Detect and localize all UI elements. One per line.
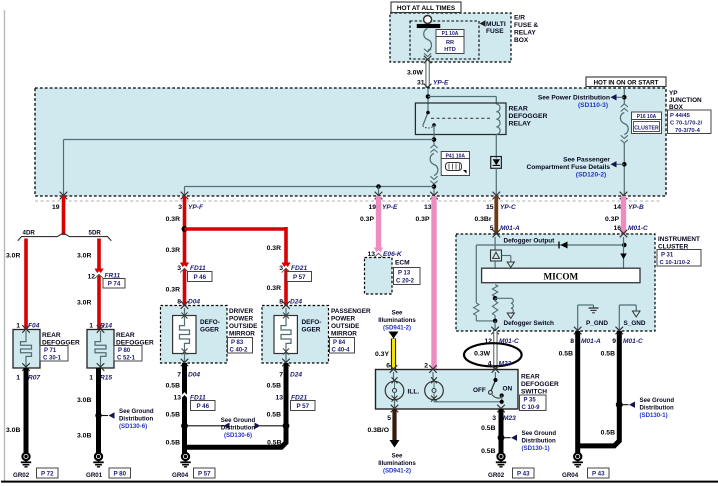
pin 13 FD21 [275,395,307,402]
svg-text:13: 13 [173,395,181,402]
svg-text:GR04: GR04 [172,472,189,479]
svg-text:3.0B: 3.0B [6,427,20,434]
svg-text:0.3Y: 0.3Y [375,351,389,358]
svg-text:0.3Br: 0.3Br [474,216,491,223]
svg-text:P1 10A: P1 10A [442,31,459,37]
svg-text:POWER: POWER [331,316,356,323]
switch common link [434,401,502,403]
svg-text:3.0R: 3.0R [77,300,91,307]
svg-text:2: 2 [424,363,428,370]
svg-text:0.3R: 0.3R [267,245,281,252]
svg-text:0.3P: 0.3P [360,216,374,223]
internal wire 2 to YP-F [185,187,435,197]
svg-text:C 52-1: C 52-1 [117,356,136,362]
label S_GND [624,320,646,327]
pin 2 [424,363,428,370]
svg-text:DEFO-: DEFO- [302,319,322,326]
illumination feed arrow [389,332,399,339]
wire 0.3P YP-B [621,196,626,234]
crossing arrow cluster in 16 [620,230,628,238]
defogger1 ref box [40,346,68,362]
connector FD21 top [281,263,290,273]
E/R multi-fuse inner box [410,21,479,59]
svg-text:0.5B: 0.5B [166,440,180,447]
svg-text:0.3P: 0.3P [416,216,430,223]
junction dot relay output [432,137,437,142]
label see passenger compartment [526,157,610,179]
svg-text:3.0B: 3.0B [77,433,91,440]
crossing arrow cluster out 8 [574,327,582,335]
passenger mirror box [262,301,329,363]
svg-text:SWITCH: SWITCH [521,389,547,396]
label 0.5B cl8 [559,351,573,358]
M23 ellipse [464,343,522,366]
svg-text:M01-A: M01-A [581,338,601,345]
svg-text:Illuminations: Illuminations [378,460,416,467]
wire 0.3R cross [185,227,287,231]
crossing arrow at E/R box exit [424,56,432,64]
svg-text:6: 6 [386,363,390,370]
FD11 ref box bottom [191,401,216,411]
internal wire 1 to pin 19 [64,140,435,197]
wire 0.5B driver [182,363,187,453]
net YP-E top [433,80,449,87]
gauge 0.3P YP-E [360,216,374,223]
label 0.3W [474,351,490,358]
pin 3 + net YP-F [178,204,204,211]
svg-text:FUSE: FUSE [486,28,504,35]
svg-text:See Ground: See Ground [640,397,675,404]
wire relay feed [427,88,429,113]
driver mirror ref box [228,338,253,354]
svg-text:(SD130-1): (SD130-1) [522,445,550,452]
svg-text:0.3R: 0.3R [166,216,180,223]
svg-text:P 74: P 74 [108,281,121,288]
svg-text:Compartment Fuse Details: Compartment Fuse Details [526,164,610,171]
internal wire to YP-E pin [378,187,380,197]
ILL lamp [385,372,404,409]
svg-text:M01-C: M01-C [623,338,643,345]
svg-text:HTD: HTD [444,47,456,53]
wire 0.3R passenger [284,227,288,306]
pin 13 FD11 [173,395,206,402]
diode defogger output [559,242,568,249]
junction dot cluster gnd ref [616,401,629,408]
svg-text:REAR: REAR [116,332,135,339]
svg-text:3.0R: 3.0R [77,253,91,260]
svg-text:YP-E: YP-E [433,80,449,87]
svg-text:YP-F: YP-F [188,204,204,211]
label see ground dist switch [522,430,557,452]
bus bar [417,24,440,28]
label 5DR [89,230,102,237]
svg-text:ILL.: ILL. [408,389,420,396]
ref arrow passenger fuse [611,161,617,167]
pin 8 D04 [177,299,200,306]
pin 13 mid [424,204,432,211]
svg-text:(SD130-6): (SD130-6) [119,423,147,430]
label 3.0R mid [77,253,91,260]
svg-text:1: 1 [16,323,20,330]
rear defogger switch box [376,370,519,410]
svg-text:RELAY: RELAY [509,121,532,128]
label 0.5B p3 [267,383,281,390]
svg-text:P 57: P 57 [293,274,306,281]
svg-text:M01-A: M01-A [500,225,520,232]
svg-text:3: 3 [492,415,496,422]
svg-text:12: 12 [87,274,95,281]
svg-text:DEFOGGER: DEFOGGER [509,113,548,120]
svg-text:DEFO-: DEFO- [200,319,220,326]
label REAR DEFOGGER 1 [42,332,80,347]
svg-text:D24: D24 [290,372,302,379]
label Defogger Switch [504,320,555,327]
svg-text:19: 19 [52,204,60,211]
svg-text:DRIVER: DRIVER [229,308,254,315]
svg-text:GR02: GR02 [13,472,30,479]
wire 0.3R from pin19 [62,196,66,235]
page left border [4,10,6,481]
crossing arrow switch in 6 [390,365,398,373]
E/R fuse & relay box [390,13,511,62]
svg-text:3: 3 [178,204,182,211]
ref arrow gnd mirror left [224,423,230,429]
svg-text:GR04: GR04 [562,472,579,479]
fuse P1 label box [436,30,464,54]
svg-text:R07: R07 [28,375,40,382]
label PASSENGER POWER OUTSIDE MIRROR [331,308,371,338]
label 3.0W [407,70,423,77]
label ECM [395,260,410,267]
svg-text:OUTSIDE: OUTSIDE [229,323,258,330]
svg-text:5: 5 [387,415,391,422]
svg-text:INSTRUMENT: INSTRUMENT [658,236,700,243]
label 0.5B p4 [267,412,281,419]
svg-text:See: See [392,453,403,460]
ground GR01 [93,453,103,467]
wire 3.0R right upper [97,239,101,331]
svg-text:(SD110-3): (SD110-3) [578,102,608,109]
pin 5 out [387,415,391,422]
crossing arrow switch out 3 [497,405,505,413]
svg-text:0.3B/O: 0.3B/O [367,427,389,434]
switch net coil branch [495,298,514,318]
svg-text:HOT AT ALL TIMES: HOT AT ALL TIMES [397,5,456,12]
fuse P41 label box [441,152,469,176]
svg-text:(SD120-2): (SD120-2) [576,172,606,179]
relay coil [496,104,500,134]
junction dot switch gnd ref [498,434,511,441]
defogger2 ref box [114,346,142,362]
pin 7 D24 [279,372,302,379]
rear defogger grid right [87,325,114,371]
relay coil to diode [495,135,497,159]
svg-text:P 80: P 80 [113,470,126,477]
label GR04 cluster [562,472,579,479]
label REAR DEFOGGER 2 [116,332,154,347]
svg-text:(SD941-2): (SD941-2) [383,468,411,475]
svg-text:(SD130-1): (SD130-1) [640,412,668,419]
label 3.0B right up [77,397,91,404]
svg-text:MICOM: MICOM [543,271,578,281]
svg-text:C 10-9: C 10-9 [522,405,541,411]
svg-text:JUNCTION: JUNCTION [669,97,702,104]
svg-text:D04: D04 [188,299,200,306]
junction dot defogger output [622,243,627,248]
illumination out arrow [390,440,400,448]
svg-text:P 80: P 80 [118,348,131,354]
pin 15 + net YP-C [486,204,516,211]
hot in on-or-start box [586,77,666,87]
svg-text:R15: R15 [100,375,112,382]
wire 0.5B pin8 [575,331,580,453]
crossing arrow exit pin14 YP-B [620,192,628,200]
svg-text:0.3P: 0.3P [605,216,619,223]
crossing arrow exit pin13 [430,192,438,200]
pin 14 + net YP-B [613,204,644,211]
S_GND bracket [619,305,640,331]
pin 13 E06-K [367,251,402,258]
label 0.5B d3 [166,383,180,390]
FR11 ref box [103,279,125,289]
svg-text:YP-E: YP-E [382,204,398,211]
rear defogger relay box [415,103,506,135]
diode D1 in junction box [491,157,502,169]
pin 8 M01-A [570,338,601,345]
svg-text:YP: YP [669,90,678,97]
crossing arrow switch in 4 [492,365,500,373]
label DEFOGGER passenger [302,319,322,334]
label 0.3Y [375,351,389,358]
crossing arrow into junction box [424,84,432,92]
svg-text:4: 4 [488,361,492,368]
sensor triangle box [491,250,502,261]
label 0.5B sw1 [481,425,495,432]
svg-text:P 46: P 46 [193,274,206,281]
label 4DR [23,230,36,237]
gauge 0.3R YP-F [166,216,180,223]
svg-text:3.0W: 3.0W [407,70,423,77]
svg-text:Distribution: Distribution [119,416,153,423]
svg-text:CLUSTER: CLUSTER [634,125,659,131]
svg-text:POWER: POWER [229,316,254,323]
wire 0.3W cluster to switch [493,331,497,370]
ground GR02 left [21,453,31,467]
label see ground dist mirrors [221,417,256,439]
label 0.5B cl10 [601,430,615,437]
label 0.3R d2 [166,287,180,294]
svg-text:E/R: E/R [514,15,525,22]
pin 1 R07 [16,375,40,382]
label see illuminations bottom [378,453,416,475]
fuse P16 label box [632,112,662,134]
svg-text:P 71: P 71 [44,348,57,354]
svg-text:P 72: P 72 [41,470,54,477]
label 0.3R p1 [267,245,281,252]
label YP JUNCTION BOX [669,90,702,111]
svg-text:M01-C: M01-C [628,225,648,232]
svg-text:D04: D04 [188,372,200,379]
crossing arrow cluster out 12 [491,327,499,335]
crossing arrow exit pin19 left [60,192,68,200]
label see power distribution [538,95,610,110]
gray dashed pin strip line [35,200,660,202]
P_GND bracket [578,305,599,331]
svg-text:BOX: BOX [514,37,529,44]
ground GR04 mirrors [180,453,190,467]
passenger mirror element [274,308,297,363]
wire 0.3Y [391,339,396,371]
FD21 ref box bottom [291,401,316,411]
wire P41 output [433,184,435,196]
ref arrow power distribution [611,94,617,100]
label REAR DEFOGGER RELAY [509,106,548,128]
micom pull resistor [492,285,497,297]
svg-text:P_GND: P_GND [586,320,608,327]
svg-text:FD11: FD11 [190,265,206,272]
svg-text:Distribution: Distribution [640,405,674,412]
label Defogger Output [504,238,556,245]
connector E06-K [374,248,383,258]
svg-text:See Power Distribution: See Power Distribution [538,95,610,102]
svg-text:P 43: P 43 [592,470,605,477]
ref arrow switch gnd [511,435,517,441]
pin 6 [386,363,390,370]
crossing arrow switch in 2 [429,365,437,373]
wire 3.0W fuse to junction box [425,59,429,88]
wire relay output [433,125,435,145]
ECM ref box [394,268,421,285]
gauge 0.3P YP-B [605,216,619,223]
wire 0.5B switch ground [499,409,504,453]
svg-text:P41 10A: P41 10A [446,153,466,159]
pin 1 R15 [89,375,112,382]
label 0.5B cl9 [601,351,615,358]
defogger output line [476,245,624,301]
svg-text:MULTI: MULTI [486,21,506,28]
pin 8 D24 [279,299,302,306]
wire 0.3Br YP-C [494,196,498,234]
pin 5 + M01-A [490,225,520,232]
pin 31 [417,80,425,87]
svg-text:See Ground: See Ground [221,417,256,424]
svg-text:0.5B: 0.5B [267,383,281,390]
label see ground dist cluster [640,397,675,419]
wire to relay coil [428,97,496,105]
battery feed terminal [424,16,432,24]
svg-text:E06-K: E06-K [383,251,403,258]
svg-text:0.3R: 0.3R [166,287,180,294]
IND lamp [425,372,444,402]
junction dot gnd ref p [260,422,289,429]
svg-text:3: 3 [177,265,181,272]
svg-text:P 35: P 35 [524,398,537,404]
svg-text:0.3W: 0.3W [474,351,490,358]
crossing arrow cluster out 9 [616,327,624,335]
label see ground dist R15 [119,408,154,430]
label 3.0B left [6,427,20,434]
svg-text:Defogger Switch: Defogger Switch [504,320,555,327]
svg-text:P 57: P 57 [296,403,309,410]
svg-text:See Ground: See Ground [522,430,557,437]
rear defogger grid left [13,325,40,371]
svg-text:DEFOGGER: DEFOGGER [521,381,559,388]
hot at all times box [391,2,461,13]
GR02 switch ref box [513,468,535,478]
switch ref box [520,395,547,411]
svg-text:31: 31 [417,80,425,87]
label DEFOGGER driver [200,319,220,334]
svg-text:Distribution: Distribution [522,438,556,445]
wire 0.5B passenger elbow [184,363,286,447]
tie line see passenger fuse [612,163,624,165]
svg-text:0.3R: 0.3R [166,247,180,254]
svg-text:GR02: GR02 [488,472,505,479]
svg-text:Illuminations: Illuminations [378,317,416,324]
svg-text:P 46: P 46 [196,403,209,410]
svg-text:7: 7 [279,372,283,379]
svg-text:P 43: P 43 [517,470,530,477]
svg-text:Distribution: Distribution [221,425,255,432]
junction dot power dist [622,95,627,100]
ECM box [365,258,393,295]
junction dot YP-F split [182,226,188,232]
svg-text:See Ground: See Ground [119,408,154,415]
svg-text:M23: M23 [503,415,516,422]
crossing arrow exit pin15 YP-C [493,192,501,200]
svg-text:7: 7 [177,372,181,379]
YP junction box [35,88,666,196]
pin 7 D04 [177,372,200,379]
svg-text:P 83: P 83 [231,340,244,346]
ground GR04 cluster [573,453,583,467]
svg-text:P 44/45: P 44/45 [670,113,691,119]
wire hot-in-on to fuse P16 [623,87,625,104]
svg-text:13: 13 [275,395,283,402]
label OFF [473,387,486,394]
svg-text:MIRROR: MIRROR [331,331,357,338]
svg-text:C 30-1: C 30-1 [43,356,62,362]
GR01 ref box [109,468,131,478]
pin 12 + FR11 [87,273,120,281]
fuse P41 10A [430,145,438,184]
junction dot ground ref R15 [95,412,108,418]
defogger switch contact [489,372,504,404]
svg-text:4DR: 4DR [23,230,36,237]
ref arrow cluster gnd [629,402,635,408]
svg-text:14: 14 [613,204,621,211]
page bottom border [1,481,718,483]
driver mirror box [161,301,228,363]
cluster wire to pin12 [494,321,496,331]
svg-text:GR01: GR01 [86,472,103,479]
pin 1 R14 [89,323,112,330]
label 0.3R d1 [166,247,180,254]
GR04 cluster ref box [588,468,610,478]
wire 3.0R left [24,239,28,331]
svg-text:See: See [392,310,403,317]
svg-text:ON: ON [503,386,513,393]
svg-text:REAR: REAR [42,332,61,339]
GR02 ref box [37,468,59,478]
label GR02 switch [488,472,505,479]
pin 19 + net YP-E [368,204,398,211]
svg-text:REAR: REAR [521,374,540,381]
wire 0.3P YP-E to ECM [376,196,381,253]
cluster wire sensor to micom [494,261,496,268]
svg-text:OFF: OFF [473,387,486,394]
svg-text:C 70-1/70-2/: C 70-1/70-2/ [670,121,703,127]
